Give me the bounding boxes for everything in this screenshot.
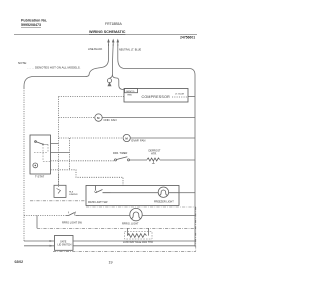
resistor: defrost heater — [147, 158, 160, 161]
wire: light feed corner — [36, 216, 38, 229]
door switch box — [54, 185, 66, 197]
svg-text:HTR.: HTR. — [151, 153, 157, 156]
wire: lower divider dash-dot — [37, 227, 196, 229]
svg-text:19: 19 — [109, 261, 113, 265]
wire: neutral lead lt-blue to right bus — [118, 44, 195, 247]
switch: freezer door light switch — [96, 186, 111, 193]
wire: hot lead black (dotted = hot) — [24, 44, 109, 88]
switch: defrost timer contact — [115, 159, 117, 161]
svg-text:FRZR LIGHT SW.: FRZR LIGHT SW. — [88, 201, 108, 204]
wire: compressor to neutral bus — [188, 96, 195, 98]
wire: freezer divider dash-dot left — [30, 200, 86, 202]
wire: timer to heater — [130, 159, 148, 161]
node: t-stat pivot junction — [42, 144, 44, 146]
svg-text:M: M — [125, 136, 128, 140]
relay box — [125, 89, 138, 93]
wire: evaporator fan row — [59, 137, 124, 139]
lamp: freezer light — [158, 187, 168, 197]
wire: condenser fan to neutral — [102, 117, 195, 119]
svg-text:5995208473: 5995208473 — [21, 23, 41, 27]
wire: defrost heater row — [51, 160, 115, 162]
switch: refrigerator door light switch — [66, 213, 79, 216]
svg-text:Publication No.: Publication No. — [21, 19, 47, 23]
wire: t-stat taps to bus — [51, 144, 70, 153]
svg-text:JUMPER: JUMPER — [69, 194, 78, 196]
svg-text:LID SWITCH: LID SWITCH — [58, 244, 72, 247]
wire: heater branch drops — [128, 228, 149, 235]
wire: lt blue lead inside compressor box — [172, 96, 188, 98]
wire: top rail to compressor — [59, 96, 125, 98]
switch: door jamb switch arrow — [57, 189, 61, 194]
svg-text:RED: RED — [128, 94, 133, 96]
wire: evap fan to neutral — [130, 137, 195, 139]
node L1: line cord hot arrow — [108, 40, 110, 46]
wire: t-stat to freezer light feed — [51, 170, 124, 186]
svg-text:GRN/YD: GRN/YD — [126, 91, 135, 93]
thermostat box T-STAT — [30, 135, 51, 174]
svg-text:LINE-BLACK: LINE-BLACK — [88, 48, 103, 51]
wire: ground lead green — [111, 44, 114, 75]
wire: heater to neutral — [160, 159, 195, 161]
svg-text:CND. FAN: CND. FAN — [104, 118, 117, 122]
node N: line cord neutral arrow — [117, 40, 119, 46]
wire: hot left vertical bus (dotted hot run) — [23, 88, 25, 241]
svg-text:RFRG LIGHT SW: RFRG LIGHT SW — [62, 222, 82, 225]
wire: control box left leads — [24, 241, 55, 246]
wire: condenser fan row (hot dotted) — [59, 117, 95, 119]
svg-text:M: M — [97, 116, 100, 120]
sensor: defrost thermostat tail — [152, 161, 155, 164]
defrost control box — [55, 236, 74, 251]
ground: chassis ground symbol — [107, 75, 112, 86]
svg-text:24756601: 24756601 — [180, 36, 195, 40]
svg-text:. . . . . DENOTES HOT ON ALL: . . . . . DENOTES HOT ON ALL MODELS. — [27, 66, 81, 70]
svg-text:NEUTRAL LT. BLUE: NEUTRAL LT. BLUE — [119, 48, 141, 51]
switch: cold control contact — [36, 142, 44, 145]
svg-text:LOW WATTAGE RFR HTR: LOW WATTAGE RFR HTR — [123, 241, 153, 244]
node: rfrg row junction tick — [74, 213, 76, 216]
wire: heater dashed enclosure — [125, 232, 153, 239]
wire: ground branch to compressor shell — [112, 75, 123, 90]
wire: t-stat internal dashes — [34, 144, 51, 161]
svg-text:COMPRESSOR: COMPRESSOR — [142, 95, 171, 99]
lamp: refrigerator light — [130, 208, 142, 220]
motor: evaporator fan — [123, 134, 130, 141]
sensor: t-stat bulb — [33, 163, 38, 168]
wire: title block rule — [14, 34, 197, 36]
resistor: low ambient heater — [128, 234, 147, 238]
wire: switch to lamp — [79, 215, 130, 217]
wire: left bus vertical — [58, 97, 60, 188]
svg-text:FRT18B5A: FRT18B5A — [105, 22, 122, 26]
wire: freezer divider dash-dot right — [86, 206, 196, 208]
svg-text:FREEZER LIGHT: FREEZER LIGHT — [154, 201, 174, 204]
svg-text:LT. BLUE: LT. BLUE — [175, 94, 185, 96]
motor: condenser fan — [95, 114, 102, 121]
svg-text:T-STAT: T-STAT — [35, 175, 45, 179]
svg-text:RFRIG. LIGHT: RFRIG. LIGHT — [122, 223, 139, 226]
wire: cabinet right dash-dot — [195, 207, 197, 251]
svg-text:02/02: 02/02 — [15, 260, 24, 264]
wire: freezer box to neutral — [179, 192, 195, 194]
wire: fresh food light row — [24, 215, 66, 217]
svg-text:NOTE:: NOTE: — [18, 61, 27, 65]
freezer compartment light box — [86, 186, 179, 206]
wire: lamp to box edge — [111, 192, 180, 194]
wire: bus down to door switch — [58, 174, 60, 185]
svg-text:DFR. TIMER: DFR. TIMER — [113, 152, 127, 155]
wire: cabinet bottom dash-dot — [53, 250, 196, 252]
wire: evap fan branch down — [69, 138, 71, 170]
node G: line cord ground arrow — [112, 40, 114, 46]
compressor box — [124, 89, 188, 103]
wire: lamp to neutral — [142, 215, 195, 217]
wire: control box right leads — [73, 241, 195, 246]
svg-text:WIRING SCHEMATIC: WIRING SCHEMATIC — [89, 30, 126, 34]
svg-text:EVAP. FAN: EVAP. FAN — [132, 138, 146, 142]
